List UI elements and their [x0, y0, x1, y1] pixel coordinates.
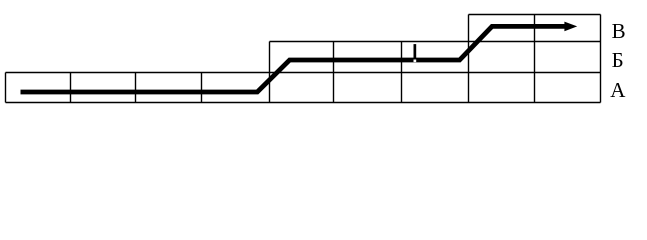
- svg-text:В: В: [612, 19, 626, 43]
- grid vertical line 4: [201, 73, 203, 103]
- route polyline: level А segment, ramp to Б, level Б segment, ramp to В, level В segment: [21, 26, 567, 92]
- grid horizontal line: top of row B (level V): [469, 14, 601, 16]
- grid vertical line 5 (left edge of row Б): [269, 42, 271, 103]
- grid vertical line 2: [70, 73, 72, 103]
- grid vertical line 8 (left edge of row В): [468, 15, 470, 103]
- grid vertical line 6: [333, 42, 335, 103]
- grid vertical line 10 (right edge): [600, 15, 602, 103]
- grid horizontal line: top of row А (level A): [6, 72, 601, 74]
- grid horizontal line: top of row Б (level B): [270, 41, 601, 43]
- tick mark on route at level Б: [414, 44, 417, 59]
- grid horizontal line: bottom of row А: [6, 102, 601, 104]
- svg-text:А: А: [610, 78, 626, 102]
- grid vertical line 9: [534, 15, 536, 103]
- tick mark white notch in route bar at level Б: [414, 60, 417, 63]
- svg-text:Б: Б: [612, 48, 624, 72]
- grid vertical line 1 (left edge of row А): [5, 73, 7, 103]
- grid vertical line 7: [401, 42, 403, 103]
- grid vertical line 3: [135, 73, 137, 103]
- arrowhead of route at level В: [564, 22, 577, 32]
